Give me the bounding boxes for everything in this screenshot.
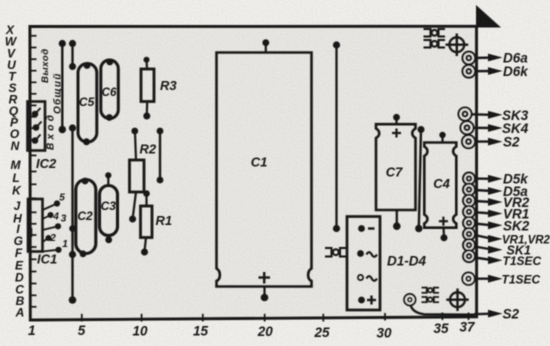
D1-D4 terminal ~ (open): [358, 275, 363, 280]
pad SK4: [461, 121, 474, 134]
arrow S2 (bottom): [474, 310, 503, 318]
C1 polarity +: [259, 272, 271, 284]
pad SK3: [459, 108, 472, 121]
connector IC2 body: [28, 102, 46, 151]
IC1 pin 2: [43, 239, 48, 243]
junction dots on long wire: [69, 124, 76, 131]
column numbers: [28, 320, 476, 341]
corner triangle: [476, 5, 501, 28]
IC1 pin 4: [43, 216, 50, 220]
capacitor C4: [424, 143, 456, 228]
resistor R1: [141, 206, 153, 238]
arrow SK4: [473, 124, 503, 132]
arrow D5a: [475, 187, 503, 195]
resistor R2: [130, 160, 145, 192]
arrow VR1: [475, 210, 503, 218]
capacitor C1 (large): [217, 53, 312, 287]
capacitor C3: [100, 186, 118, 236]
pad D6a: [463, 52, 476, 65]
arrow D6a: [474, 54, 503, 62]
IC2 pin dot 2: [33, 124, 40, 131]
arrow SK2: [475, 221, 503, 229]
mounting hole bottom: [450, 292, 465, 307]
row ticks on left border: [31, 36, 37, 307]
long wire (72.5,128)-(72.5,300): [71, 128, 73, 300]
pad S2 (bottom ring): [404, 294, 415, 305]
arrow SK1: [475, 246, 503, 254]
jumper symbol ]o[ near D1-D4: [325, 247, 347, 258]
arrow S2: [475, 138, 503, 146]
wire link (72,37)-(72,64.5): [71, 44, 73, 67]
arrow T1SEC: [475, 256, 503, 264]
wire link right of R2: [159, 131, 161, 180]
capacitor C6: [101, 60, 119, 119]
pad D6k: [463, 65, 476, 78]
arrow T1SEC (lower): [475, 275, 503, 283]
row letters X..A: [5, 23, 25, 320]
D1-D4 terminal -: [358, 225, 365, 232]
rectifier block D1-D4: [347, 217, 380, 311]
arrow VR1,VR2: [475, 235, 503, 243]
pad T1SEC (lower): [462, 273, 474, 285]
arrow D6k: [474, 67, 503, 75]
connector IC1 body: [28, 199, 43, 252]
wire link (62.8,37)-(62.8,129.5): [61, 44, 63, 130]
arrow VR2: [475, 198, 503, 206]
jumper symbols ]o[ bottom right (two, small): [422, 287, 440, 303]
column ticks on bottom border: [82, 313, 469, 322]
long wire x=336.5: [335, 45, 337, 228]
pad column D5k..T1SEC: [463, 173, 475, 263]
arrow D5k: [475, 175, 503, 183]
resistor R3: [141, 69, 154, 102]
IC2 pin dot 3: [32, 137, 39, 144]
capacitor C7: [376, 124, 416, 210]
jumper symbols ]o[ top right (two): [424, 28, 446, 49]
board outline: [30, 26, 477, 320]
mounting hole top: [449, 37, 464, 52]
board interior tone: [31, 27, 476, 318]
IC2 pin dot 1: [32, 111, 39, 118]
capacitor C5: [78, 64, 97, 143]
D1-D4 terminal +: [358, 297, 365, 304]
capacitor C2: [76, 180, 96, 254]
wire link between C7 and C4: [419, 130, 421, 229]
wire from pad S2 to border: [411, 305, 475, 315]
IC1 pin 3: [43, 227, 58, 231]
D1-D4 terminal ~: [357, 250, 364, 257]
arrow SK3: [471, 111, 503, 119]
IC1 pin 1: [43, 250, 58, 252]
IC1 pin 5: [43, 204, 57, 210]
pad S2: [462, 135, 475, 148]
